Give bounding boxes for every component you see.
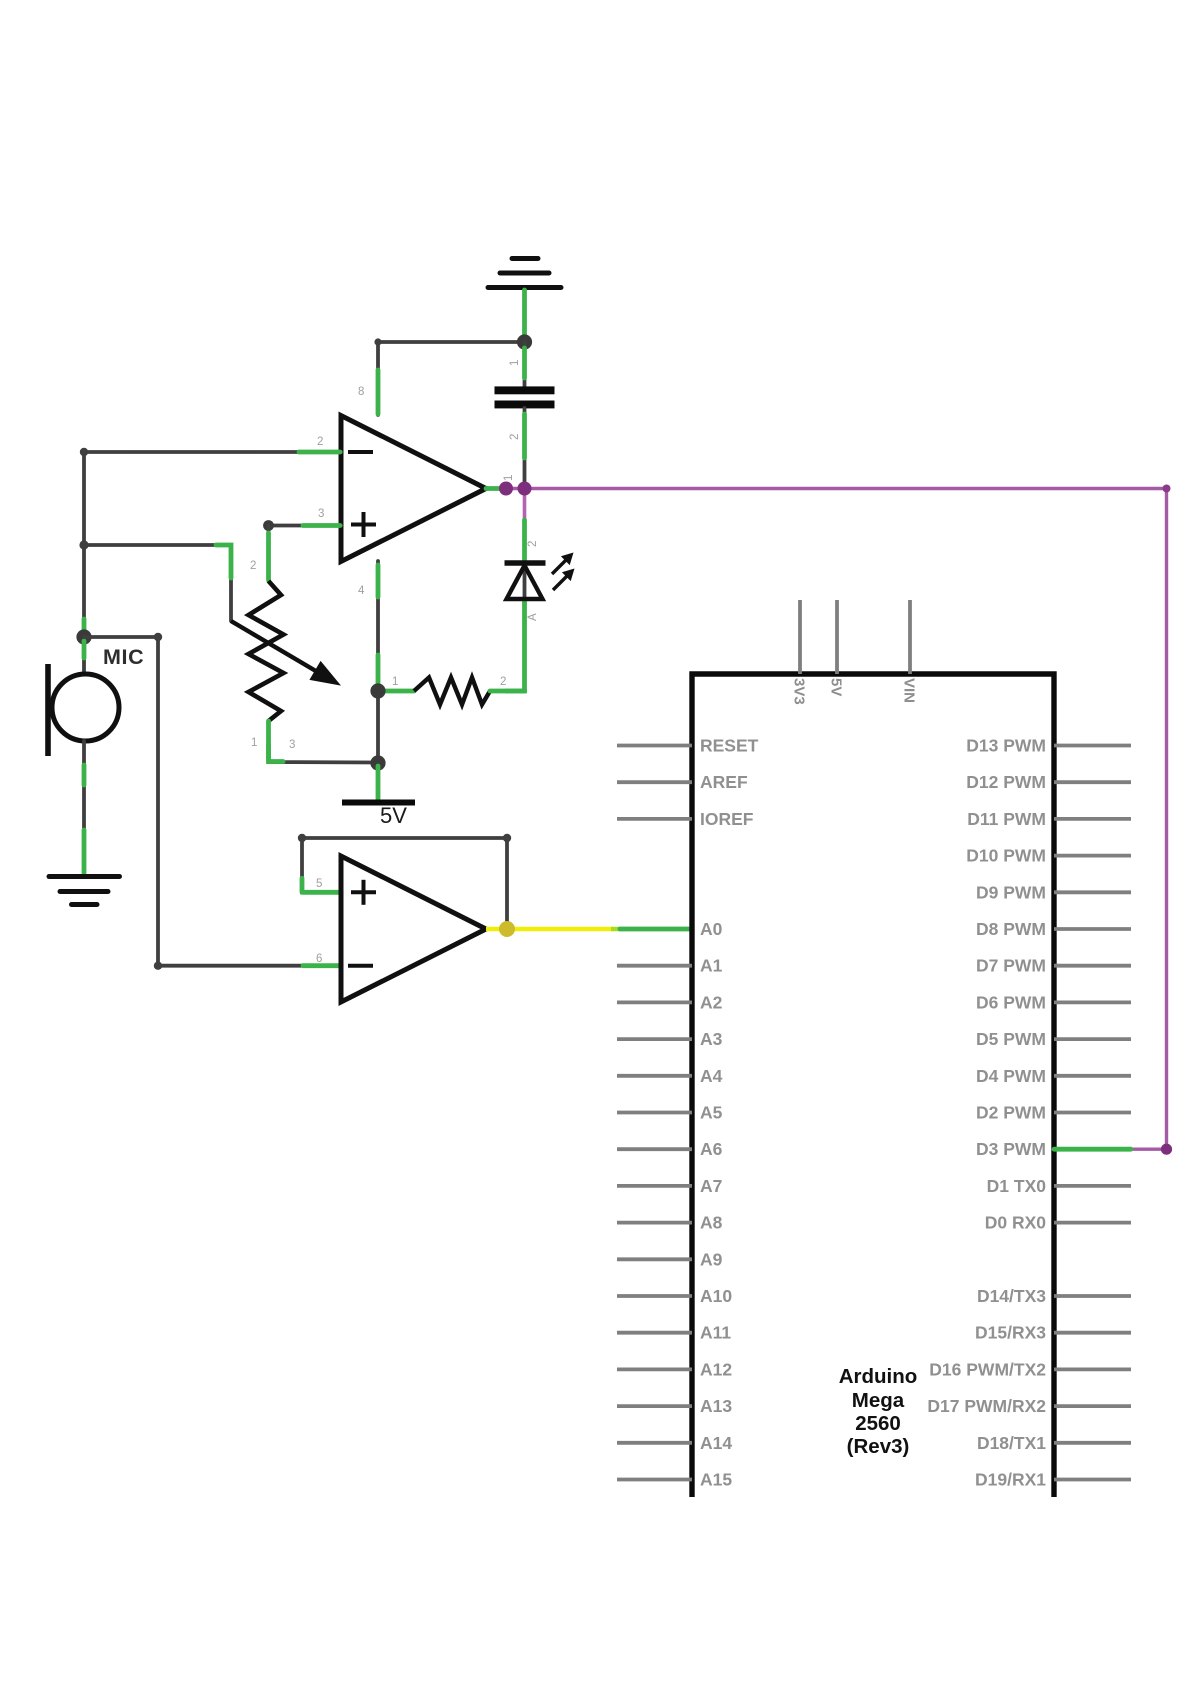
svg-text:RESET: RESET [700,736,759,756]
svg-text:D9 PWM: D9 PWM [976,882,1046,902]
svg-text:D7 PWM: D7 PWM [976,956,1046,976]
svg-text:A6: A6 [700,1139,723,1159]
svg-text:D4 PWM: D4 PWM [976,1066,1046,1086]
svg-text:2: 2 [509,434,521,440]
svg-text:D0 RX0: D0 RX0 [985,1213,1047,1233]
svg-text:5: 5 [316,878,322,890]
svg-text:D2 PWM: D2 PWM [976,1103,1046,1123]
svg-text:D19/RX1: D19/RX1 [975,1470,1046,1490]
svg-text:D3 PWM: D3 PWM [976,1139,1046,1159]
svg-text:A1: A1 [700,956,723,976]
svg-text:3: 3 [289,739,295,751]
svg-text:A2: A2 [700,992,723,1012]
svg-text:5V: 5V [828,678,845,696]
svg-text:A11: A11 [700,1323,731,1343]
svg-text:AREF: AREF [700,772,748,792]
svg-text:D18/TX1: D18/TX1 [977,1433,1046,1453]
svg-text:D13 PWM: D13 PWM [966,736,1046,756]
svg-text:A: A [527,613,539,621]
svg-text:2: 2 [250,560,256,572]
svg-text:2560: 2560 [855,1412,901,1435]
svg-text:D17 PWM/RX2: D17 PWM/RX2 [927,1396,1046,1416]
svg-text:D8 PWM: D8 PWM [976,919,1046,939]
svg-text:3V3: 3V3 [791,678,808,705]
svg-text:D16 PWM/TX2: D16 PWM/TX2 [929,1359,1046,1379]
svg-text:VIN: VIN [901,678,918,703]
svg-text:1: 1 [509,360,521,366]
svg-text:4: 4 [358,585,365,597]
svg-text:2: 2 [527,541,539,547]
svg-text:1: 1 [503,475,515,481]
svg-text:2: 2 [317,436,323,448]
svg-text:2: 2 [500,676,506,688]
svg-text:5V: 5V [380,803,407,828]
svg-text:A13: A13 [700,1396,732,1416]
svg-text:1: 1 [251,737,257,749]
svg-text:A3: A3 [700,1029,723,1049]
svg-text:Mega: Mega [852,1389,905,1412]
svg-text:D15/RX3: D15/RX3 [975,1323,1046,1343]
svg-text:A8: A8 [700,1213,723,1233]
svg-text:A4: A4 [700,1066,723,1086]
svg-text:8: 8 [358,386,364,398]
svg-text:D5 PWM: D5 PWM [976,1029,1046,1049]
svg-text:(Rev3): (Rev3) [847,1435,910,1458]
svg-text:A9: A9 [700,1249,723,1269]
svg-text:A14: A14 [700,1433,732,1453]
svg-text:D6 PWM: D6 PWM [976,992,1046,1012]
svg-text:MIC: MIC [103,645,144,669]
svg-text:D14/TX3: D14/TX3 [977,1286,1046,1306]
svg-text:D1 TX0: D1 TX0 [987,1176,1047,1196]
svg-text:D11 PWM: D11 PWM [967,809,1046,829]
svg-text:D10 PWM: D10 PWM [966,846,1046,866]
svg-text:Arduino: Arduino [839,1365,918,1388]
svg-text:A0: A0 [700,919,723,939]
svg-text:IOREF: IOREF [700,809,754,829]
svg-text:A7: A7 [700,1176,722,1196]
svg-text:3: 3 [318,508,324,520]
svg-text:A5: A5 [700,1103,723,1123]
svg-text:A10: A10 [700,1286,732,1306]
svg-text:6: 6 [316,953,322,965]
svg-text:A15: A15 [700,1470,732,1490]
svg-text:1: 1 [392,676,398,688]
svg-text:A12: A12 [700,1359,732,1379]
svg-text:D12 PWM: D12 PWM [966,772,1046,792]
